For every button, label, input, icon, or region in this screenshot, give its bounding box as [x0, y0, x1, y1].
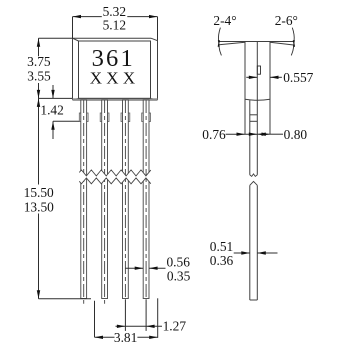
- svg-text:3.81: 3.81: [114, 330, 137, 345]
- svg-text:XXX: XXX: [90, 69, 140, 88]
- svg-text:0.35: 0.35: [167, 269, 191, 284]
- svg-text:13.50: 13.50: [24, 199, 54, 214]
- svg-text:0.51: 0.51: [210, 239, 233, 254]
- svg-text:0.80: 0.80: [284, 127, 308, 142]
- svg-text:3.55: 3.55: [27, 69, 51, 84]
- svg-text:1.27: 1.27: [163, 319, 187, 334]
- svg-text:15.50: 15.50: [24, 185, 54, 200]
- svg-text:3.75: 3.75: [27, 54, 51, 69]
- svg-text:2-6°: 2-6°: [275, 13, 298, 28]
- svg-text:0.557: 0.557: [283, 70, 313, 85]
- svg-text:1.42: 1.42: [40, 103, 63, 118]
- svg-text:5.12: 5.12: [103, 17, 126, 32]
- svg-text:0.76: 0.76: [202, 127, 226, 142]
- svg-text:0.56: 0.56: [166, 254, 190, 269]
- svg-text:0.36: 0.36: [210, 253, 234, 268]
- svg-text:2-4°: 2-4°: [213, 13, 236, 28]
